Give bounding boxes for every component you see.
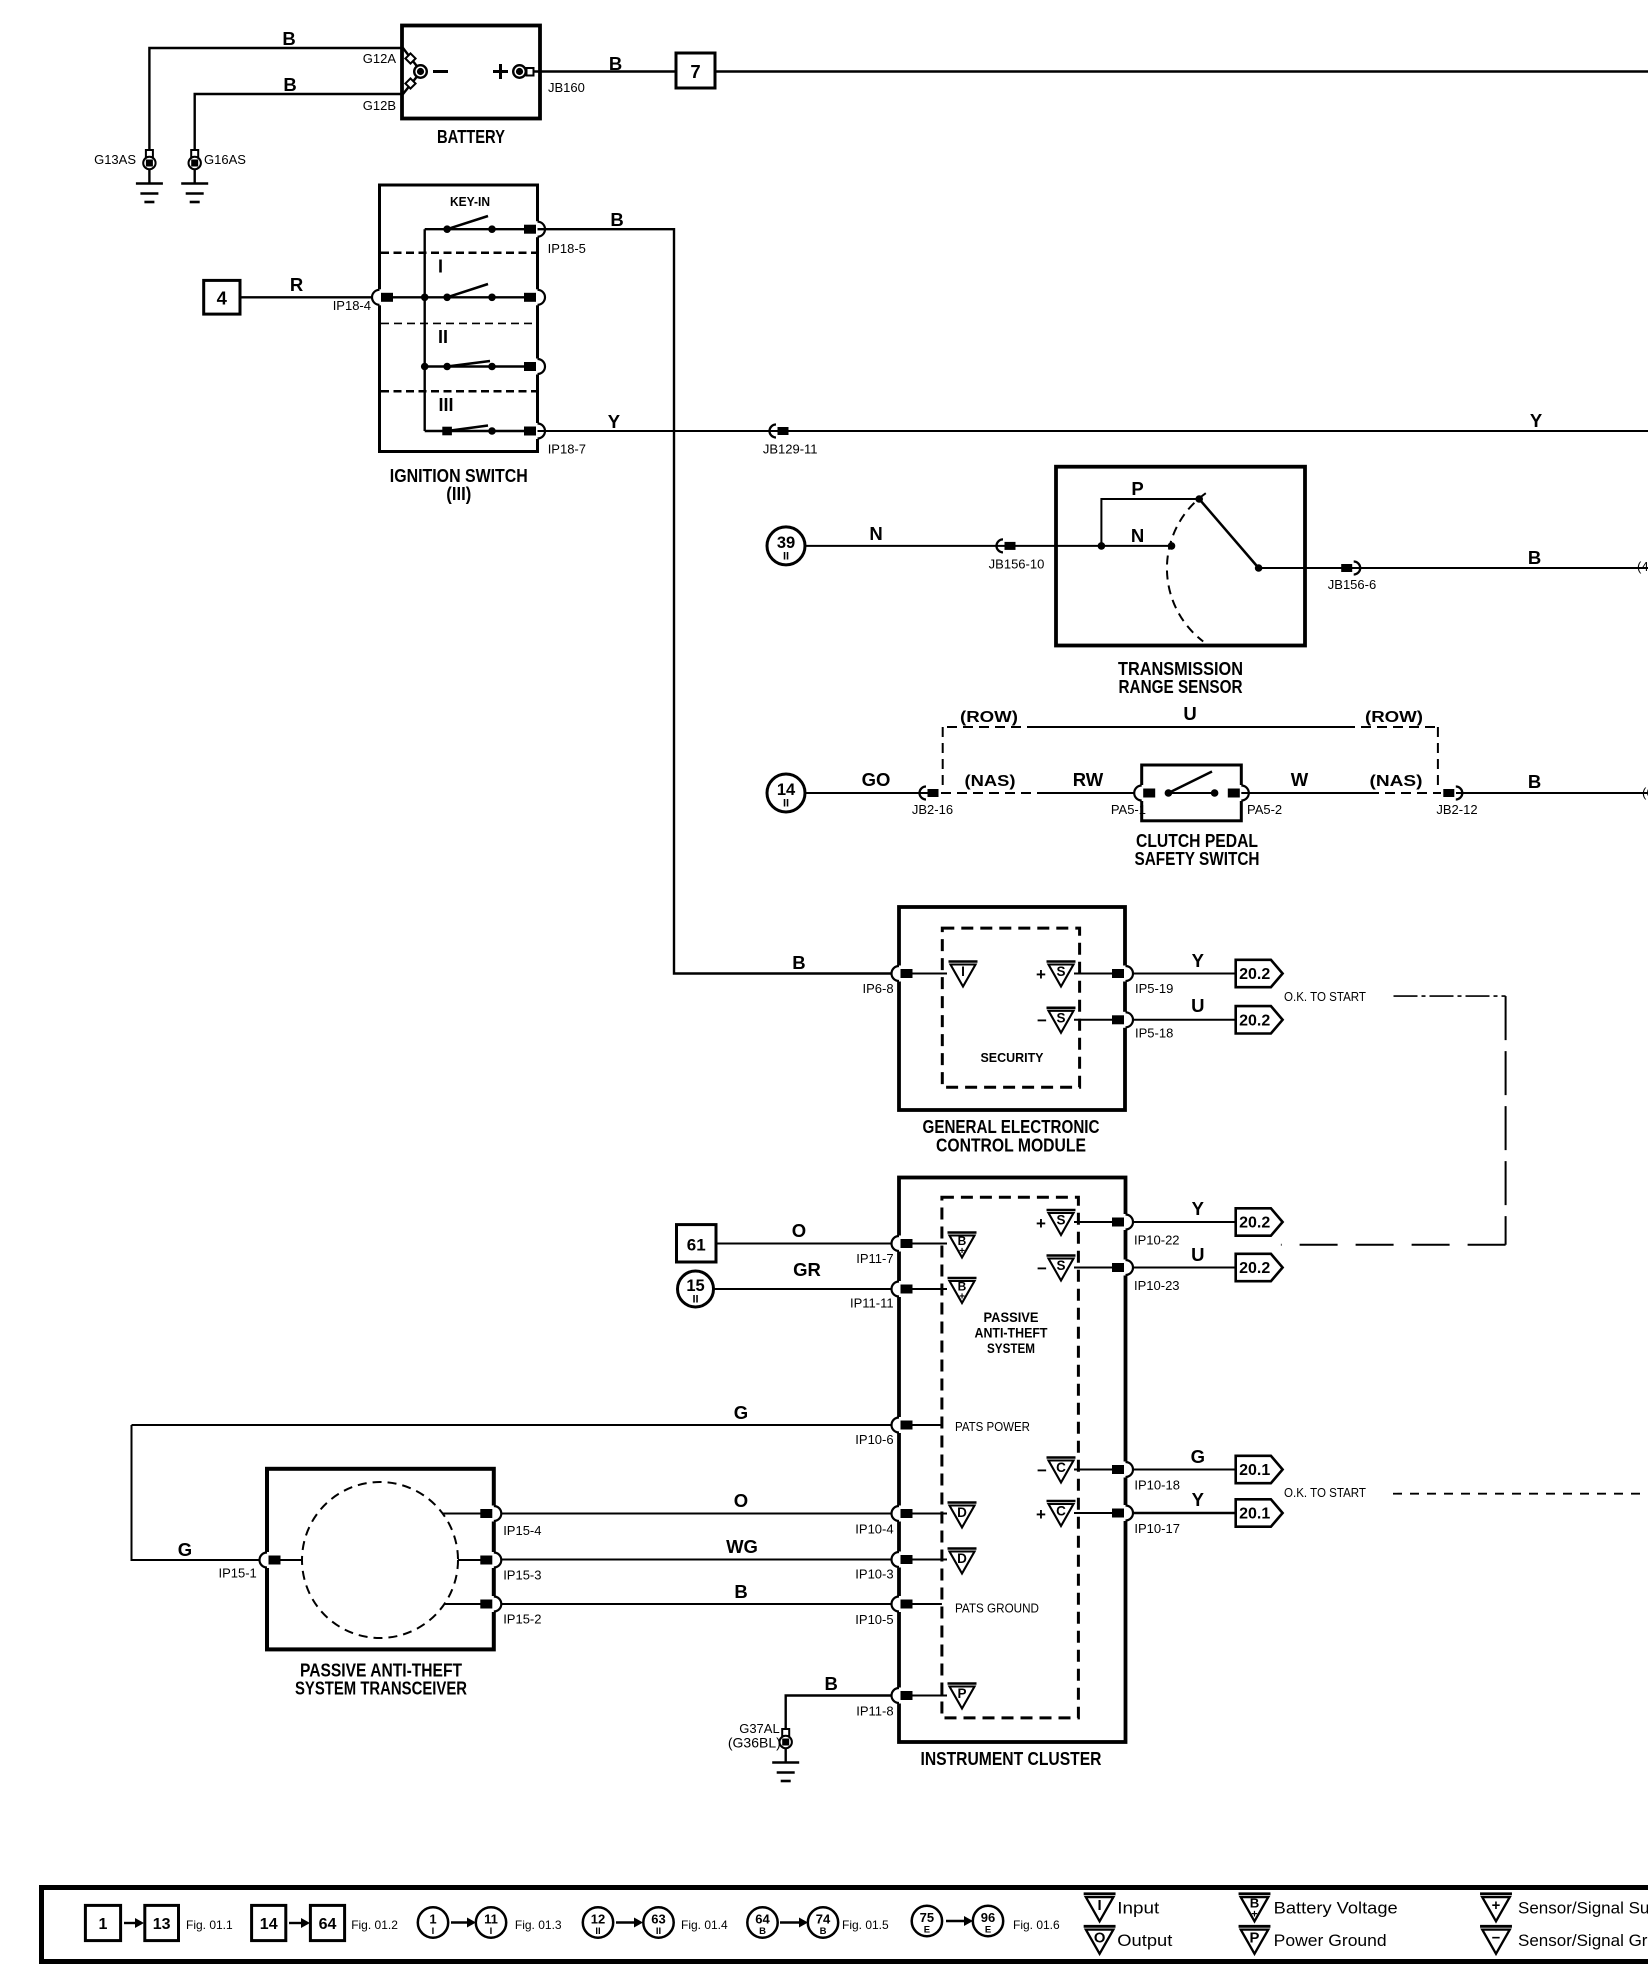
svg-text:ANTI-THEFT: ANTI-THEFT [975, 1325, 1048, 1341]
legend circle 12 [583, 1907, 613, 1937]
svg-text:I: I [432, 1926, 435, 1937]
legend circle 11 [476, 1907, 506, 1937]
connector JB2-12 [1443, 789, 1454, 797]
svg-text:PA5-1: PA5-1 [1111, 802, 1146, 817]
transmission range sensor box [1056, 467, 1305, 646]
terminal IP18-5 [535, 221, 541, 237]
wire W [1241, 792, 1369, 794]
svg-text:IP10-17: IP10-17 [1134, 1521, 1180, 1536]
legend output triangle [1084, 1926, 1116, 1954]
legend input triangle [1084, 1894, 1116, 1922]
terminal IP10-23 [1123, 1260, 1129, 1276]
off-page arrow 20.1 (IP10-18) [1236, 1456, 1283, 1483]
svg-text:RW: RW [1073, 769, 1104, 790]
svg-text:SYSTEM TRANSCEIVER: SYSTEM TRANSCEIVER [295, 1679, 467, 1699]
dashed link horizontal return [1281, 1244, 1506, 1246]
connector JB2-16 [928, 789, 939, 797]
svg-text:O: O [1094, 1930, 1106, 1946]
svg-text:IP11-11: IP11-11 [850, 1296, 894, 1311]
sensor rotary switch arm [1199, 499, 1258, 568]
legend battery voltage triangle [1239, 1894, 1271, 1922]
svg-text:PATS POWER: PATS POWER [955, 1420, 1030, 1434]
ground G16AS [191, 150, 198, 157]
connector circle 39 [767, 527, 805, 565]
svg-text:C: C [1056, 1460, 1066, 1475]
svg-text:G12B: G12B [363, 98, 396, 113]
off-page arrow 20.2 (IP5-19) [1236, 960, 1283, 987]
svg-text:(III): (III) [446, 484, 471, 504]
svg-text:P: P [1250, 1930, 1260, 1946]
svg-text:IP18-5: IP18-5 [548, 241, 586, 256]
svg-text:P: P [1131, 478, 1143, 499]
svg-text:Y: Y [1530, 410, 1543, 431]
svg-text:IP10-5: IP10-5 [855, 1612, 893, 1627]
svg-text:+: + [959, 1246, 965, 1257]
svg-text:U: U [1191, 1244, 1204, 1265]
sensor dashed position arc [1167, 493, 1206, 641]
svg-text:12: 12 [591, 1912, 605, 1927]
connector JB156-6 [1341, 564, 1352, 572]
svg-text:SAFETY SWITCH: SAFETY SWITCH [1135, 849, 1260, 869]
svg-text:Fig. 01.6: Fig. 01.6 [1013, 1918, 1060, 1932]
off-page arrow 20.2 (IP5-18) [1236, 1006, 1283, 1033]
svg-text:O: O [792, 1220, 806, 1241]
wire B to page edge [715, 70, 1648, 72]
svg-text:S: S [1056, 964, 1065, 979]
svg-text:+: + [1036, 1214, 1046, 1233]
terminal IP11-11 [896, 1281, 902, 1297]
terminal IP5-18 [1123, 1012, 1129, 1028]
svg-text:61: 61 [687, 1236, 706, 1255]
svg-text:S: S [1056, 1258, 1065, 1273]
svg-text:N: N [1131, 525, 1144, 546]
svg-text:B: B [609, 53, 622, 74]
battery box [402, 26, 540, 119]
terminal PA5-1 [1139, 785, 1145, 801]
svg-text:I: I [438, 257, 443, 277]
connector square on G12B lead [405, 78, 415, 88]
svg-text:(ROW): (ROW) [1365, 709, 1423, 726]
svg-text:III: III [438, 395, 453, 415]
svg-text:U: U [1183, 703, 1196, 724]
PATS dashed box [942, 1197, 1079, 1718]
legend circle 75 [912, 1906, 942, 1936]
terminal IP15-1 [264, 1552, 270, 1568]
battery voltage triangle B+ (IP11-7) [948, 1233, 977, 1258]
legend arrow 14-64 [289, 1922, 303, 1924]
off-page arrow 20.2 (IP10-22) [1236, 1208, 1283, 1235]
svg-text:64: 64 [755, 1912, 770, 1927]
legend arrow 64-74 [780, 1921, 801, 1923]
svg-text:B: B [734, 1581, 747, 1602]
sensor supply triangle S+ (cluster) [1047, 1210, 1076, 1235]
svg-text:+: + [1036, 965, 1046, 984]
ignition row II right terminal [535, 359, 541, 375]
svg-text:B: B [282, 28, 295, 49]
dashed link horizontal top [1394, 995, 1506, 997]
svg-text:E: E [985, 1925, 991, 1936]
legend power ground triangle [1239, 1926, 1271, 1954]
svg-text:GO: GO [862, 769, 891, 790]
IP10-4 stub wire [911, 1513, 947, 1515]
svg-text:Power Ground: Power Ground [1274, 1931, 1387, 1950]
ignition row I switch arm [447, 284, 488, 297]
junction dot bus/row II [421, 363, 429, 371]
wire G to 20.1 [1132, 1469, 1236, 1471]
svg-text:B: B [1528, 771, 1541, 792]
wire WG from IP15-3 to IP10-3 [499, 1559, 899, 1561]
wire G to PATS POWER [132, 1424, 900, 1426]
ignition KEY-IN row wire [425, 228, 524, 230]
svg-text:O: O [734, 1490, 748, 1511]
svg-text:15: 15 [686, 1277, 704, 1295]
junction dot N/P [1098, 542, 1106, 550]
svg-text:+: + [1036, 1505, 1046, 1524]
svg-text:B: B [283, 74, 296, 95]
wire B from G16AS ground to battery negative [195, 74, 419, 150]
ignition row I contact dot [443, 294, 451, 302]
svg-text:PATS GROUND: PATS GROUND [955, 1602, 1039, 1616]
svg-text:INSTRUMENT CLUSTER: INSTRUMENT CLUSTER [921, 1749, 1102, 1769]
terminal IP10-3 [896, 1552, 902, 1568]
ignition switch box [380, 185, 538, 452]
svg-text:II: II [783, 550, 789, 562]
battery plus sign [493, 70, 508, 73]
wire B from JB2-12 to page edge [1456, 792, 1648, 794]
connector JB129-11 [778, 427, 789, 435]
svg-text:96: 96 [981, 1910, 995, 1925]
wire GR from 15 to IP11-11 [714, 1288, 900, 1290]
wire RW [1040, 792, 1142, 794]
sensor return triangle S- (GECM) [1047, 1008, 1076, 1033]
svg-text:IP15-2: IP15-2 [503, 1612, 541, 1627]
svg-text:D: D [957, 1505, 967, 1520]
svg-text:JB2-12: JB2-12 [1436, 802, 1477, 817]
legend sensor supply triangle [1480, 1894, 1512, 1922]
ignition dashed separator 2 [381, 322, 536, 324]
wire O from IP15-4 to IP10-4 [499, 1513, 899, 1515]
svg-text:G12A: G12A [363, 51, 397, 66]
svg-text:Fig. 01.2: Fig. 01.2 [351, 1918, 398, 1932]
svg-text:II: II [438, 327, 448, 347]
clutch pedal safety switch box [1142, 765, 1242, 821]
terminal IP10-6 [896, 1417, 902, 1433]
svg-text:Input: Input [1117, 1899, 1159, 1918]
svg-text:4: 4 [217, 288, 228, 309]
svg-text:IP18-4: IP18-4 [333, 298, 371, 313]
ignition row III switch arm [447, 426, 488, 432]
svg-text:Fig. 01.1: Fig. 01.1 [186, 1918, 233, 1932]
svg-text:G13AS: G13AS [94, 152, 136, 167]
legend circle 64 [747, 1907, 777, 1937]
svg-text:(G36BL): (G36BL) [728, 1735, 781, 1751]
wire Y from IP18-7 to page edge [538, 430, 1648, 432]
connector box 61 [677, 1225, 717, 1262]
legend box 1 [85, 1905, 120, 1940]
IP15-1 stub wire [279, 1559, 302, 1561]
svg-text:IGNITION SWITCH: IGNITION SWITCH [390, 466, 528, 486]
svg-text:(6: (6 [1642, 785, 1648, 800]
wire B from G37AL ground to IP11-8 [786, 1696, 899, 1730]
terminal IP10-17 [1123, 1505, 1129, 1521]
battery minus sign [433, 70, 448, 73]
svg-text:64: 64 [319, 1916, 337, 1933]
svg-text:IP10-22: IP10-22 [1134, 1233, 1180, 1248]
clutch switch wire [1168, 792, 1214, 794]
wire G from IP15-1 up and right to PATS POWER feed [132, 1425, 268, 1560]
legend arrow 12-63 [616, 1921, 636, 1923]
svg-text:O.K. TO START: O.K. TO START [1284, 989, 1366, 1004]
svg-text:BATTERY: BATTERY [437, 127, 505, 147]
svg-text:I: I [1098, 1898, 1102, 1914]
ROW dashed vertical left [942, 727, 944, 786]
svg-text:WG: WG [726, 1536, 758, 1557]
svg-text:IP15-3: IP15-3 [503, 1568, 541, 1583]
svg-text:1: 1 [429, 1912, 436, 1927]
ignition row I right terminal [535, 289, 541, 305]
dashed link vertical [1505, 996, 1507, 1245]
svg-text:IP11-7: IP11-7 [856, 1251, 893, 1266]
junction dot bus/row I [421, 294, 429, 302]
ignition row III contact dot right [488, 427, 496, 435]
svg-text:+: + [1492, 1898, 1501, 1914]
svg-text:IP10-6: IP10-6 [855, 1432, 893, 1447]
legend bar border [42, 1888, 1648, 1962]
svg-text:CONTROL MODULE: CONTROL MODULE [936, 1136, 1086, 1156]
terminal IP18-7 [535, 423, 541, 439]
svg-text:(4: (4 [1637, 559, 1648, 574]
off-page arrow 20.2 (IP10-23) [1236, 1254, 1283, 1281]
svg-text:PASSIVE ANTI-THEFT: PASSIVE ANTI-THEFT [300, 1661, 462, 1681]
sensor supply triangle S+ (GECM) [1047, 962, 1076, 987]
svg-text:+: + [1251, 1908, 1257, 1920]
svg-text:IP10-4: IP10-4 [855, 1522, 893, 1537]
connector circle 15 [678, 1271, 714, 1307]
legend circle 96 [973, 1906, 1003, 1936]
svg-text:Fig. 01.3: Fig. 01.3 [515, 1918, 562, 1932]
svg-text:Fig. 01.5: Fig. 01.5 [842, 1918, 889, 1932]
sensor N contact dot [1168, 542, 1176, 550]
svg-text:11: 11 [484, 1912, 498, 1927]
GECM security dashed box [942, 928, 1079, 1087]
terminal IP10-4 [896, 1506, 902, 1522]
dashed NAS wire left [941, 792, 1040, 794]
ground G13AS [146, 150, 153, 157]
legend arrow 1-13 [124, 1922, 137, 1924]
svg-text:JB2-16: JB2-16 [912, 802, 953, 817]
svg-text:(NAS): (NAS) [965, 773, 1016, 790]
svg-text:14: 14 [260, 1916, 278, 1933]
svg-text:GENERAL ELECTRONIC: GENERAL ELECTRONIC [923, 1117, 1100, 1137]
C- to IP10-18 wire [1074, 1469, 1113, 1471]
svg-text:TRANSMISSION: TRANSMISSION [1118, 659, 1243, 679]
svg-text:RANGE SENSOR: RANGE SENSOR [1119, 677, 1243, 697]
svg-text:IP11-8: IP11-8 [856, 1704, 893, 1719]
svg-text:7: 7 [690, 61, 700, 82]
ignition row III contact square [442, 427, 452, 436]
sensor P contact dot [1195, 495, 1203, 503]
svg-text:II: II [783, 798, 789, 810]
terminal IP5-19 [1123, 966, 1129, 982]
wire Y to 20.1 [1132, 1512, 1236, 1514]
svg-text:14: 14 [777, 781, 796, 799]
wire B battery to fuse 7 [534, 70, 677, 72]
C+ to IP10-17 wire [1074, 1512, 1113, 1514]
legend circle 74 [808, 1907, 838, 1937]
svg-text:U: U [1191, 995, 1204, 1016]
ignition KEY-IN contact dot [443, 225, 451, 233]
legend box 13 [145, 1905, 179, 1940]
wire O from 61 to IP11-7 [716, 1243, 899, 1245]
svg-text:S: S [1056, 1213, 1065, 1228]
clutch switch arm [1168, 772, 1212, 794]
coil to IP15-4 wire [443, 1513, 485, 1515]
svg-text:IP15-1: IP15-1 [218, 1566, 256, 1581]
svg-text:PASSIVE: PASSIVE [984, 1309, 1039, 1325]
svg-text:Fig. 01.4: Fig. 01.4 [681, 1918, 728, 1932]
svg-text:−: − [1037, 1461, 1047, 1480]
terminal IP11-7 [896, 1236, 902, 1252]
svg-text:+: + [959, 1292, 965, 1303]
svg-text:IP10-3: IP10-3 [855, 1567, 893, 1582]
wire GO to JB2-16 [805, 792, 933, 794]
connector square on G12A lead [405, 53, 415, 63]
terminal IP6-8 [896, 966, 902, 982]
svg-text:B: B [1528, 547, 1541, 568]
svg-text:KEY-IN: KEY-IN [450, 194, 490, 209]
svg-text:JB129-11: JB129-11 [763, 442, 818, 457]
svg-text:(ROW): (ROW) [960, 709, 1018, 726]
svg-text:IP15-4: IP15-4 [503, 1523, 541, 1538]
svg-text:20.2: 20.2 [1239, 1012, 1270, 1029]
svg-text:S: S [1056, 1010, 1065, 1025]
IP6-8 stub wire [911, 973, 947, 975]
dashed O.K. TO START line to edge [1393, 1493, 1648, 1495]
svg-text:JB156-6: JB156-6 [1328, 577, 1376, 592]
svg-text:IP5-19: IP5-19 [1135, 981, 1173, 996]
svg-text:B: B [759, 1926, 766, 1937]
ignition row II contact dot right [488, 363, 496, 371]
ignition row III wire [425, 430, 524, 432]
wire U (ROW bypass) [1030, 726, 1345, 728]
terminal IP15-4 [491, 1506, 497, 1522]
legend box 64 [310, 1905, 344, 1940]
svg-text:75: 75 [920, 1910, 934, 1925]
battery negative terminal [414, 65, 427, 78]
svg-text:E: E [924, 1925, 930, 1936]
svg-text:Y: Y [1192, 1198, 1205, 1219]
ignition KEY-IN contact dot right [488, 225, 496, 233]
svg-text:B: B [792, 952, 805, 973]
svg-text:B: B [825, 1673, 838, 1694]
wire B from IP15-2 to IP10-5 [499, 1603, 899, 1605]
IP10-3 stub wire [911, 1559, 947, 1561]
svg-text:G16AS: G16AS [204, 152, 246, 167]
svg-text:39: 39 [777, 534, 795, 552]
battery voltage triangle B+ (IP11-11) [948, 1278, 977, 1303]
connector box 4 [204, 280, 240, 314]
svg-text:II: II [595, 1926, 600, 1937]
wire B from IP18-5 down to GECM IP6-8 [538, 229, 900, 973]
terminal IP10-22 [1123, 1214, 1129, 1230]
terminal IP10-18 [1123, 1462, 1129, 1478]
sensor N wire [1101, 545, 1171, 547]
terminal PA5-2 [1238, 785, 1244, 801]
svg-text:I: I [490, 1926, 493, 1937]
svg-text:R: R [290, 274, 303, 295]
svg-text:IP10-18: IP10-18 [1134, 1478, 1180, 1493]
coil to IP15-3 wire [458, 1559, 485, 1561]
wire B from sensor to page edge [1259, 567, 1648, 569]
svg-text:B: B [820, 1926, 827, 1937]
svg-text:−: − [1492, 1930, 1501, 1946]
svg-text:II: II [656, 1926, 661, 1937]
general electronic control module box [899, 907, 1125, 1110]
wire B from G13AS ground to battery negative [149, 48, 419, 150]
svg-text:P: P [957, 1686, 966, 1701]
svg-text:N: N [869, 523, 882, 544]
legend arrow 75-96 [946, 1920, 966, 1922]
S+ to IP5-19 wire [1074, 973, 1113, 975]
svg-text:C: C [1056, 1504, 1066, 1519]
svg-text:SYSTEM: SYSTEM [987, 1340, 1035, 1356]
IP11-7 stub wire [911, 1243, 947, 1245]
off-page arrow 20.1 (IP10-17) [1236, 1499, 1283, 1526]
svg-text:Sensor/Signal Supply: Sensor/Signal Supply [1518, 1899, 1648, 1918]
svg-text:20.1: 20.1 [1239, 1506, 1270, 1523]
legend arrow 1-11 [451, 1921, 469, 1923]
svg-text:(NAS): (NAS) [1370, 773, 1423, 790]
ignition dashed separator 3 [381, 390, 536, 393]
transceiver dashed coil circle [302, 1482, 458, 1638]
ignition row I contact dot right [488, 294, 496, 302]
terminal IP15-3 [491, 1552, 497, 1568]
svg-text:63: 63 [651, 1912, 665, 1927]
svg-text:20.2: 20.2 [1239, 966, 1270, 983]
wire N to transmission range sensor [805, 545, 1101, 547]
legend circle 63 [643, 1907, 673, 1937]
svg-text:II: II [692, 1294, 698, 1306]
S- to IP5-18 wire [1074, 1019, 1113, 1021]
wire U to 20.2 [1132, 1019, 1236, 1021]
ignition internal bus wire [424, 229, 426, 431]
svg-text:74: 74 [816, 1912, 831, 1927]
S+ to IP10-22 wire [1074, 1221, 1113, 1223]
IP11-8 stub wire [911, 1695, 947, 1697]
input triangle I (GECM) [949, 962, 978, 987]
power ground triangle P (IP11-8) [948, 1684, 977, 1709]
ignition row II contact dot [443, 363, 451, 371]
clutch contact dot right [1211, 789, 1219, 797]
svg-text:Sensor/Signal Ground: Sensor/Signal Ground [1518, 1931, 1648, 1950]
svg-text:Y: Y [608, 411, 621, 432]
svg-text:IP18-7: IP18-7 [548, 442, 586, 457]
ground G37AL (G36BL) [782, 1729, 789, 1736]
wire R from box 4 to IP18-4 [240, 296, 380, 298]
svg-text:JB160: JB160 [548, 80, 585, 95]
svg-text:IP6-8: IP6-8 [863, 981, 894, 996]
terminal IP11-8 [896, 1688, 902, 1704]
svg-text:Y: Y [1192, 1489, 1205, 1510]
ignition row I wire [380, 296, 525, 298]
connector JB156-10 [1005, 542, 1016, 550]
svg-text:20.2: 20.2 [1239, 1260, 1270, 1277]
svg-text:20.1: 20.1 [1239, 1462, 1270, 1479]
svg-text:O.K. TO START: O.K. TO START [1284, 1485, 1366, 1500]
ROW dashed horizontal right [1345, 726, 1438, 728]
data triangle D (IP10-3) [948, 1549, 977, 1574]
svg-text:13: 13 [153, 1916, 171, 1933]
